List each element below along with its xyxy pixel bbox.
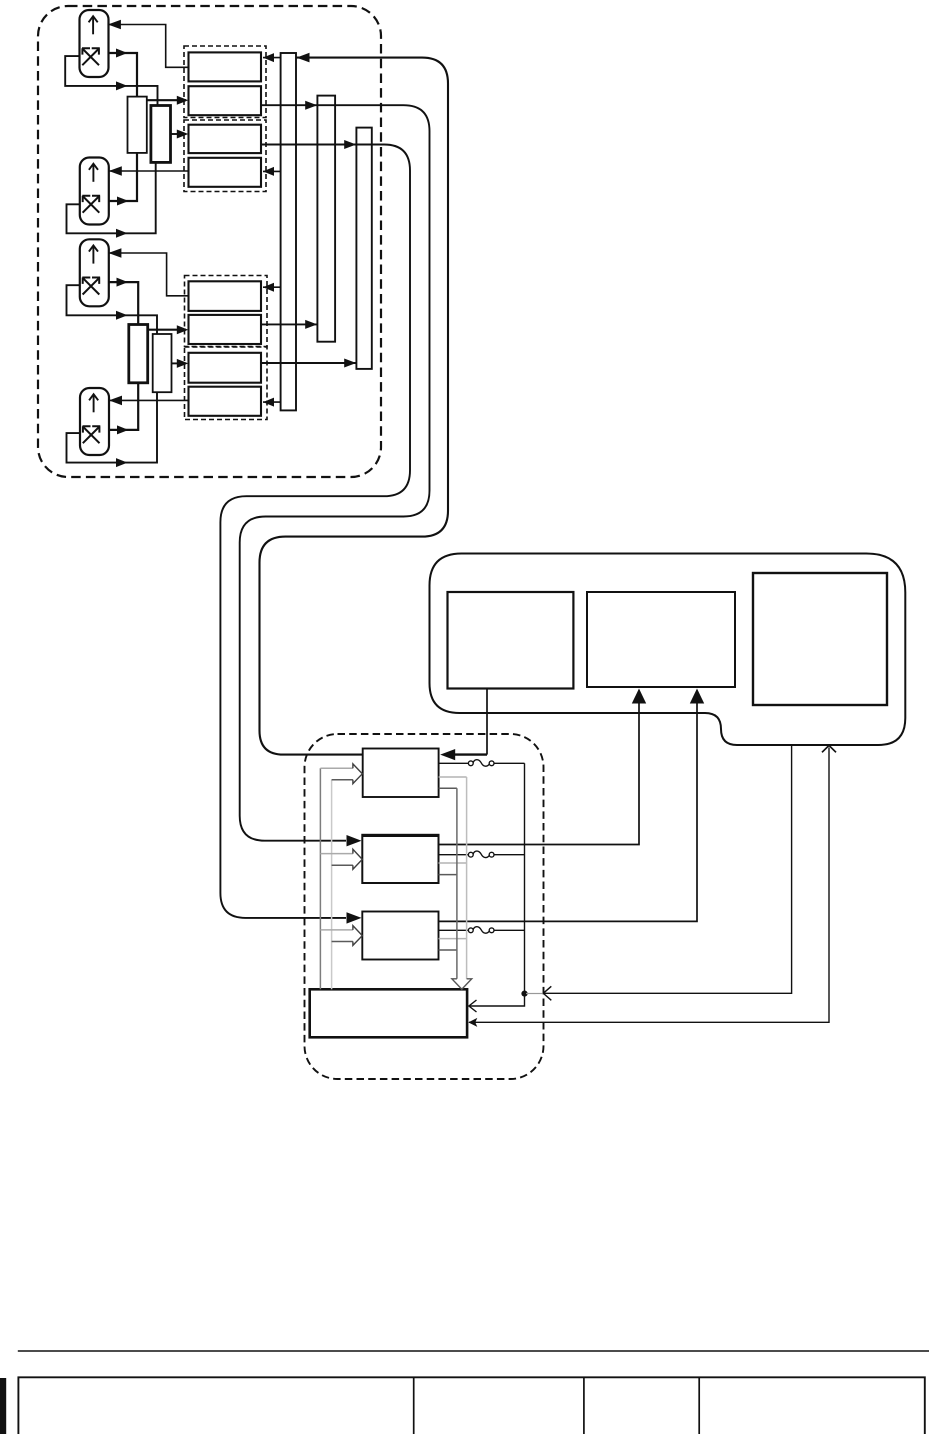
gray bus vertical V3 [456, 788, 458, 979]
TRX2 clock line with coupling [439, 854, 525, 856]
baseband block U2 [587, 592, 735, 687]
arrowhead into RH [263, 398, 274, 407]
footer separator line [18, 1350, 929, 1352]
open arrowhead at dashed edge [543, 986, 551, 1000]
wire A1 loop to T2 [65, 56, 157, 105]
wire bar1 to RH [263, 401, 281, 403]
binding mark [0, 1378, 6, 1434]
arrowhead into U2 (left) [632, 689, 646, 704]
arrowhead into transceiver 3 [347, 912, 362, 923]
open arrowhead into CTRL [469, 1000, 477, 1012]
block RD [189, 158, 262, 187]
wire T4 to RG [172, 362, 187, 364]
wire A1 X-feed to T1 [108, 53, 137, 97]
arrowhead into transceiver 2 [347, 835, 362, 846]
control block CTRL [310, 989, 467, 1037]
TRX2 gray output stubs [439, 862, 467, 864]
wire U1 to transceiver 1 (horizontal) [453, 753, 487, 755]
bus bar 2 [317, 96, 335, 342]
table column line 3 [698, 1377, 700, 1434]
arrowhead into U2 (right) [690, 689, 704, 704]
TRX3 gray output stubs [439, 938, 467, 940]
TRX2 thick top edge [362, 834, 438, 837]
coupling symbol 3 [468, 927, 494, 934]
arrowhead into RB [177, 96, 189, 105]
antenna array dashed boundary [38, 6, 381, 477]
wire CTRL to baseband [469, 748, 829, 1023]
dashed subgroup box 1 [184, 46, 266, 118]
baseband block U1 [448, 592, 574, 689]
wire A4 X-feed to T3 [109, 383, 138, 430]
antenna element A1 (cross-polarized) [80, 10, 109, 77]
wire A4 receive [109, 399, 189, 401]
TRX2 hollow arrow input shafts [320, 853, 353, 855]
block RB [189, 86, 262, 115]
wire bar1 to RD [263, 170, 281, 172]
arrowhead RF to bar2 [305, 320, 317, 329]
arrowhead into RF [177, 325, 189, 334]
wire bar1 to RE [263, 286, 281, 288]
arrowhead into RC [177, 130, 189, 139]
arrowhead into transceiver 1 [440, 749, 455, 760]
block RE [189, 281, 262, 311]
bus bar 3 [356, 128, 371, 369]
block RG [189, 353, 262, 383]
arrowhead on A4 X-feed [117, 425, 129, 434]
block RC [189, 125, 262, 153]
arrowhead into RA [263, 53, 274, 62]
baseband unit rounded boundary [430, 554, 906, 746]
wire transceiver 3 to U2 [439, 691, 698, 922]
transceiver array dashed boundary [305, 734, 544, 1079]
arrowhead on A1 loop [116, 81, 128, 90]
wire T3 to RF [148, 329, 186, 331]
combiner T1 [128, 97, 147, 153]
arrowhead on A2 X-feed [117, 197, 129, 206]
wire A2 receive [109, 170, 189, 172]
transceiver block TRX1 [363, 749, 439, 798]
arrowhead on A3 X-feed [117, 278, 129, 287]
transceiver block TRX2 [362, 835, 438, 883]
wire bar1 to RA [263, 57, 281, 59]
block RH [189, 387, 262, 416]
arrowhead RG to bar3 [344, 359, 356, 368]
wire RB to bar2 and down to transceiver 2 [240, 105, 430, 841]
baseband block U3 [753, 573, 887, 705]
combiner T2 [151, 106, 171, 163]
TRX3 hollow arrow input shafts [320, 929, 353, 931]
TRX1 clock line with coupling [439, 762, 525, 764]
combiner T4 [153, 334, 172, 392]
coupling symbol 2 [468, 851, 494, 858]
antenna element A4 (cross-polarized) [80, 388, 109, 455]
arrowhead into RG [177, 359, 189, 368]
block RF [189, 315, 262, 344]
TRX1 gray output stubs [439, 776, 467, 778]
arrowhead into RE [263, 283, 274, 292]
wire A3 X-feed to T3 [108, 282, 138, 324]
wire A2 X-feed to T1 [109, 153, 137, 201]
hollow arrow head into CTRL top [452, 979, 472, 989]
TRX1 hollow arrow input shafts [320, 767, 353, 769]
TRX3 hollow arrow head [353, 926, 362, 946]
antenna element A2 (cross-polarized) [80, 158, 109, 225]
title block table [18, 1377, 924, 1434]
gray link to junction [526, 993, 542, 995]
wire A4 loop to T4 [67, 392, 158, 462]
arrowhead into A1 [108, 20, 121, 30]
arrowhead on A2 loop [116, 229, 128, 238]
arrowhead into RD [263, 167, 274, 176]
arrowhead on A4 loop [116, 458, 128, 467]
wire RC to bar3 and down to transceiver 3 [220, 145, 410, 918]
gray bus vertical V2 [331, 780, 333, 990]
wire RF to bar2 [261, 323, 317, 325]
junction dot [521, 991, 527, 997]
wire bus to CTRL [470, 994, 525, 1006]
combiner T3 [129, 325, 148, 383]
transceiver block TRX3 [362, 912, 438, 960]
wire transceiver 1 to bar1 [260, 58, 449, 755]
TRX2 hollow arrow head [353, 849, 362, 869]
dashed subgroup box 3 [185, 276, 268, 347]
wire A3 receive [108, 253, 188, 296]
clock bus vertical [524, 763, 526, 993]
arrowhead into bar1 [297, 53, 310, 63]
open arrowhead into baseband [822, 745, 836, 752]
arrowhead into bar3 [344, 140, 356, 149]
dashed subgroup box 4 [185, 347, 268, 420]
coupling symbol 1 [468, 760, 494, 767]
arrowhead into A4 [109, 396, 122, 406]
TRX1 hollow arrow head [353, 764, 362, 784]
table column line 2 [583, 1377, 585, 1434]
dashed subgroup box 2 [184, 120, 266, 192]
arrowhead into bar2 [305, 101, 317, 110]
arrowhead into CTRL [468, 1018, 477, 1027]
arrowhead on A1 X-feed [116, 49, 128, 58]
wire RG to bar3 [261, 362, 356, 364]
wire A3 loop to T4 [67, 285, 158, 334]
bus bar 1 [281, 53, 296, 410]
gray bus vertical V1 [319, 768, 321, 989]
wire T1 to RB [147, 99, 186, 101]
wire A2 loop to T2 [67, 162, 156, 233]
wire T2 to RC [171, 133, 187, 135]
antenna element A3 (cross-polarized) [80, 239, 109, 306]
table column line 1 [413, 1377, 415, 1434]
TRX3 clock line with coupling [439, 929, 525, 931]
gray bus vertical V4 [466, 777, 468, 979]
wire A1 receive [108, 25, 189, 68]
block RA [189, 52, 262, 81]
arrowhead into A2 [109, 166, 122, 176]
wire baseband to clock bus [543, 744, 791, 993]
wire transceiver 2 to U2 [439, 691, 640, 845]
arrowhead into A3 [108, 248, 121, 258]
wire U1 to transceiver 1 (vertical) [486, 689, 488, 755]
arrowhead on A3 loop [116, 311, 128, 320]
